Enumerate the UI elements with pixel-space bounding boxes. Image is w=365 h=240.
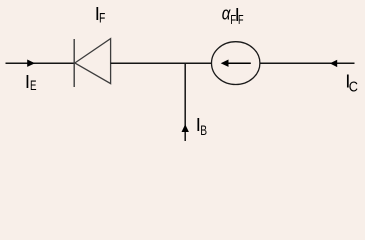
svg-text:C: C <box>349 79 358 95</box>
svg-text:F: F <box>99 10 106 26</box>
wire: collector lead (right horizontal) <box>260 62 355 64</box>
current direction arrow IE (points right) <box>27 60 35 67</box>
diode D1 triangle (anode, pointing left) <box>75 39 111 84</box>
svg-text:I: I <box>25 71 30 92</box>
current direction arrow IB (points up) <box>182 124 189 132</box>
wire: base lead (vertical at node B) <box>184 63 186 141</box>
wire: diode to current source <box>111 62 212 64</box>
current source U1: ellipse <box>212 42 260 85</box>
diode D1 cathode bar <box>73 39 75 87</box>
svg-text:E: E <box>30 77 37 93</box>
wire: emitter lead (left horizontal) <box>6 62 75 64</box>
svg-text:F: F <box>238 14 244 28</box>
svg-text:B: B <box>200 123 207 139</box>
current source arrow (points left) <box>228 62 251 64</box>
current direction arrow IC (points left) <box>330 60 337 67</box>
